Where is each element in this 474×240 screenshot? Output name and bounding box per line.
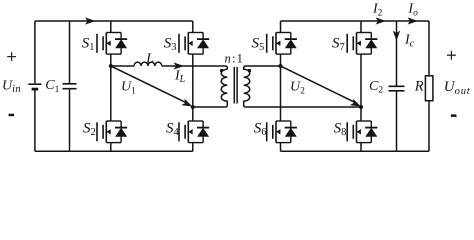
svg-text:S5: S5: [251, 35, 264, 52]
svg-text:S6: S6: [254, 121, 267, 138]
svg-text:S8: S8: [334, 121, 347, 138]
svg-text:R: R: [414, 79, 424, 95]
transistor S4: [179, 121, 209, 143]
wire R branch: [428, 21, 430, 151]
wire top rail right: [281, 20, 430, 22]
transformer core: [234, 67, 237, 104]
label minus (input): [9, 114, 15, 117]
svg-text:IL: IL: [174, 68, 186, 85]
resistor R box: [425, 76, 433, 101]
svg-text:S4: S4: [166, 121, 180, 138]
wire leg A (S1/S2): [110, 21, 112, 151]
node D junction dot: [359, 105, 363, 109]
svg-text:C2: C2: [369, 79, 383, 96]
wire top rail left: [35, 20, 193, 22]
transistor S3: [179, 33, 209, 55]
wire bottom rail left: [35, 150, 193, 152]
svg-text:Uout: Uout: [444, 79, 471, 97]
transformer secondary winding: [244, 66, 250, 107]
node A junction dot: [109, 64, 113, 68]
voltage arrow U2 head: [350, 99, 363, 110]
wire bottom rail right: [281, 150, 430, 152]
voltage arrow U2: [282, 67, 357, 104]
svg-text:Uin: Uin: [2, 78, 21, 95]
wire C1 branch: [69, 21, 71, 151]
input current arrowhead: [85, 17, 96, 24]
label + (input): [7, 52, 16, 61]
svg-text:I2: I2: [372, 2, 383, 19]
wire leg D (S7/S8): [360, 21, 362, 151]
svg-text:S1: S1: [82, 35, 95, 52]
label minus (output): [451, 114, 457, 117]
battery source Uin short plate: [32, 88, 39, 91]
current Ic arrowhead (down): [393, 31, 400, 42]
wire node A to inductor: [111, 65, 134, 67]
svg-text:S3: S3: [164, 35, 177, 52]
svg-text:n:1: n:1: [225, 51, 245, 65]
svg-text:U1: U1: [121, 80, 136, 97]
transistor S5: [267, 33, 297, 55]
wire transformer secondary bottom to node D: [246, 106, 361, 108]
wire transformer secondary top to node C: [246, 65, 281, 67]
battery source Uin long plate: [28, 83, 41, 85]
inductor L: [134, 62, 162, 66]
wire inductor to transformer primary top: [162, 66, 228, 69]
label + (output): [447, 51, 456, 60]
voltage arrow U1 head: [181, 99, 194, 110]
capacitor C2 plates: [389, 86, 405, 91]
capacitor C1 plates: [63, 84, 77, 89]
wire battery branch: [34, 21, 36, 151]
voltage arrow U1: [112, 67, 188, 104]
inductor current IL arrowhead: [174, 62, 185, 69]
transistor S2: [97, 121, 127, 143]
node C junction dot: [279, 64, 283, 68]
wire leg C (S5/S6): [280, 21, 282, 151]
svg-text:C1: C1: [45, 78, 59, 95]
transistor S7: [347, 33, 377, 55]
current Io arrowhead: [408, 17, 419, 24]
node B junction dot: [191, 105, 195, 109]
svg-text:Io: Io: [407, 2, 418, 19]
svg-text:Ic: Ic: [404, 33, 415, 50]
wire leg B (S3/S4): [192, 21, 194, 151]
svg-text:S2: S2: [83, 121, 96, 138]
wire C2 branch: [396, 21, 398, 151]
transistor S6: [267, 121, 297, 143]
svg-text:U2: U2: [290, 80, 305, 97]
transformer primary polarity dot: [220, 69, 223, 72]
wire transformer primary bottom to node B: [193, 106, 226, 108]
svg-text:S7: S7: [332, 35, 345, 52]
svg-text:L: L: [145, 52, 154, 67]
current I2 arrowhead: [376, 17, 387, 24]
transformer primary winding: [221, 69, 227, 107]
transformer secondary polarity dot: [248, 69, 251, 72]
transistor S8: [347, 121, 377, 143]
transistor S1: [97, 33, 127, 55]
